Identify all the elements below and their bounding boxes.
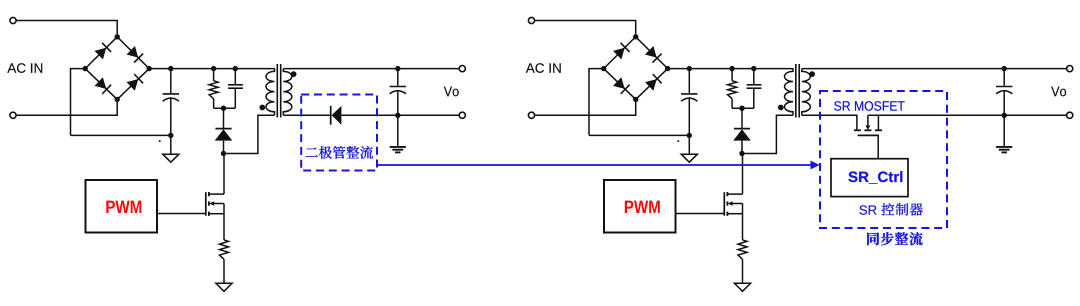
SR MOSFET body stub with arrow — [866, 115, 871, 130]
wire negative rail — [71, 134, 171, 136]
label diode rectification CJK — [306, 146, 373, 159]
wire bridge left node down — [589, 69, 604, 136]
wire output top rail — [283, 68, 459, 70]
node dot snubber join — [739, 106, 744, 111]
ground source — [216, 283, 232, 291]
label SR_Ctrl — [848, 171, 902, 184]
wire SR to output rail — [868, 114, 1004, 116]
diode output rectifier — [331, 106, 342, 125]
terminal Vo bottom — [1067, 112, 1073, 118]
SR MOSFET gate bar — [858, 134, 879, 136]
polarity tick — [677, 140, 679, 142]
transistor drain stub — [209, 193, 224, 195]
transistor channel segments — [208, 192, 210, 196]
wire source resistor to ground — [223, 259, 225, 283]
ground output earth — [996, 146, 1012, 148]
wire source — [742, 204, 744, 240]
wire junction to primary winding — [224, 115, 275, 153]
ground output earth — [390, 146, 406, 148]
label PWM — [106, 201, 141, 213]
node dot output cap bottom — [395, 113, 400, 118]
transistor channel segments — [726, 192, 728, 196]
ground bulk — [681, 154, 697, 162]
dashed box diode rectification — [301, 95, 377, 171]
label AC IN — [7, 63, 42, 73]
wire positive top rail — [149, 68, 275, 70]
wire to ground — [170, 135, 172, 154]
capacitor bulk electrolytic — [681, 69, 697, 136]
label PWM — [625, 201, 660, 213]
node dot snubber R top — [729, 66, 734, 71]
bridge diode bottom-right — [127, 74, 144, 91]
transformer primary polarity dot — [778, 105, 784, 111]
wire AC top to bridge — [535, 21, 636, 37]
transistor gate bar — [205, 192, 207, 216]
capacitor snubber — [228, 69, 243, 109]
bridge node dots — [601, 34, 670, 102]
label SR MOSFET — [834, 101, 904, 111]
terminal AC bottom — [10, 112, 16, 118]
resistor snubber — [209, 69, 218, 109]
dashed box synchronous rectification — [820, 91, 947, 228]
wire drain — [742, 154, 744, 195]
wire positive top rail — [668, 68, 794, 70]
wire bridge left node down — [71, 69, 86, 136]
wire output top rail — [802, 68, 1067, 70]
transistor body stub with arrow — [209, 201, 224, 206]
label Vo — [444, 87, 459, 97]
node dot bulk cap top — [687, 66, 692, 71]
transistor drain stub — [727, 193, 742, 195]
transformer secondary polarity dot — [291, 71, 297, 77]
wire snubber join — [732, 107, 754, 109]
transformer primary winding — [266, 69, 275, 116]
terminal Vo top — [1067, 66, 1073, 72]
node dot bulk cap top — [168, 66, 173, 71]
wire gate — [676, 213, 724, 215]
node dot drain junction — [739, 151, 744, 156]
ground bulk — [163, 154, 179, 162]
wire gate — [157, 213, 205, 215]
transformer primary polarity dot — [259, 105, 265, 111]
wire diode to output — [341, 114, 397, 116]
resistor source — [220, 240, 229, 259]
wire secondary bottom to SR mosfet drain — [802, 115, 857, 129]
label SR controller — [859, 205, 876, 214]
capacitor output — [390, 69, 406, 116]
capacitor snubber — [747, 69, 762, 109]
node dot bulk cap bottom — [687, 133, 692, 138]
node dot output cap top — [1002, 66, 1007, 71]
transformer core — [796, 64, 799, 118]
capacitor bulk electrolytic — [163, 69, 179, 136]
transistor gate bar — [723, 192, 725, 216]
wire junction to primary winding — [742, 115, 793, 153]
block PWM controller — [86, 180, 158, 233]
wire gate to SR controller — [877, 135, 879, 158]
wire drain — [223, 154, 225, 195]
label AC IN — [526, 63, 561, 73]
bridge diode bottom-right — [645, 74, 662, 91]
wire AC top to bridge — [16, 21, 117, 37]
bridge rectifier frame — [85, 37, 149, 100]
wire source — [223, 204, 225, 240]
ground source — [734, 283, 750, 291]
transformer secondary polarity dot — [809, 71, 815, 77]
terminal AC bottom — [528, 112, 534, 118]
diode snubber — [733, 108, 751, 153]
arrow annotation — [377, 161, 820, 170]
transformer primary winding — [785, 69, 794, 116]
diode snubber — [215, 108, 233, 153]
capacitor output — [996, 69, 1012, 116]
transistor body stub with arrow — [728, 201, 743, 206]
terminal Vo bottom — [459, 112, 465, 118]
block SR_Ctrl — [831, 159, 908, 197]
label synchronous rectification CJK — [867, 232, 922, 245]
wire output bottom rail — [882, 114, 1067, 116]
bridge rectifier frame — [604, 37, 668, 100]
bridge diode top-right — [126, 46, 143, 63]
terminal AC top — [528, 17, 534, 23]
node dot snubber join — [221, 106, 226, 111]
wire AC bottom to bridge — [16, 99, 117, 115]
wire output ground — [397, 115, 399, 146]
wire source resistor to ground — [742, 259, 744, 283]
bridge diode left-top — [613, 43, 630, 60]
transformer secondary winding — [283, 69, 292, 116]
wire output bottom rail — [398, 114, 459, 116]
node dot drain junction — [221, 151, 226, 156]
bridge diode left-bottom — [613, 77, 630, 94]
node dot snubber C top — [751, 66, 756, 71]
wire secondary bottom to diode — [283, 114, 330, 116]
bridge diode left-top — [94, 43, 111, 60]
transformer secondary winding — [802, 69, 811, 116]
wire snubber join — [214, 107, 236, 109]
node dot bulk cap bottom — [168, 133, 173, 138]
SR MOSFET channel segments — [854, 129, 882, 131]
SR MOSFET source stub — [877, 115, 879, 129]
wire to ground — [688, 135, 690, 154]
transformer core — [277, 64, 280, 118]
bridge diode top-right — [645, 46, 662, 63]
resistor snubber — [728, 69, 737, 109]
transistor source stub — [727, 213, 742, 215]
node dot snubber C top — [233, 66, 238, 71]
wire AC bottom to bridge — [535, 99, 636, 115]
label Vo — [1051, 87, 1066, 97]
node dot output cap bottom — [1002, 113, 1007, 118]
transistor source stub — [209, 213, 224, 215]
bridge diode left-bottom — [95, 77, 112, 94]
wire negative rail — [589, 134, 689, 136]
bridge node dots — [83, 34, 152, 102]
block PWM controller — [604, 180, 676, 233]
terminal Vo top — [459, 66, 465, 72]
resistor source — [738, 240, 747, 259]
node dot output cap top — [395, 66, 400, 71]
polarity tick — [159, 140, 161, 142]
wire output ground — [1003, 115, 1005, 146]
node dot snubber R top — [211, 66, 216, 71]
terminal AC top — [10, 17, 16, 23]
